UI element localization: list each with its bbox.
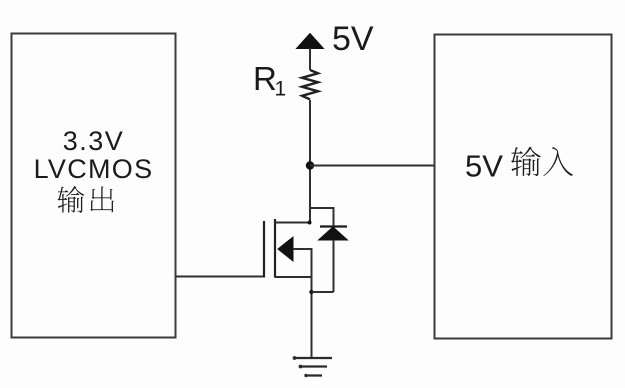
transistor Q1 source stub: [275, 276, 312, 278]
transistor Q1 gate bar: [263, 221, 265, 278]
label: 输出 (left box line 3, "output"): [57, 186, 114, 213]
junction: source / diode anode branch: [309, 290, 313, 294]
svg-text:LVCMOS: LVCMOS: [34, 154, 154, 184]
resistor R1 (zigzag): [302, 70, 318, 99]
body diode cathode bar: [320, 225, 347, 227]
svg-text:R: R: [253, 60, 277, 97]
power symbol: +5V supply arrow: [297, 34, 324, 49]
wire: supply arrow to resistor top: [309, 48, 311, 70]
svg-text:5V: 5V: [332, 20, 374, 58]
junction: drain stub / vertical: [308, 221, 312, 225]
wire: gate from left box: [176, 276, 265, 278]
left box: 3.3V LVCMOS output block: [12, 34, 176, 338]
node: junction dot (output node): [306, 161, 314, 169]
ground symbol: [293, 356, 332, 377]
wire: body arrow to source: [293, 249, 312, 277]
svg-text:1: 1: [275, 78, 287, 101]
wire: source down to ground: [311, 277, 313, 358]
svg-text:5V: 5V: [465, 149, 503, 184]
wire: node to right box (5V input): [310, 165, 435, 167]
wire: body diode anode down: [333, 240, 335, 292]
svg-text:3.3V: 3.3V: [63, 126, 125, 156]
transistor Q1 channel bar: [274, 219, 276, 278]
wire: drain branch to body diode cathode: [310, 208, 334, 227]
right box: 5V input block: [435, 35, 612, 339]
transistor Q1 drain stub: [275, 222, 310, 224]
wire: source branch to diode anode: [312, 291, 334, 293]
label: 5V 输入 (right box, "5V input"): [465, 147, 573, 184]
body diode triangle (pointing up): [319, 227, 348, 240]
wire: resistor bottom to node, continuing to drain: [309, 100, 311, 223]
transistor Q1 body arrow (pointing left into channel): [278, 237, 293, 261]
